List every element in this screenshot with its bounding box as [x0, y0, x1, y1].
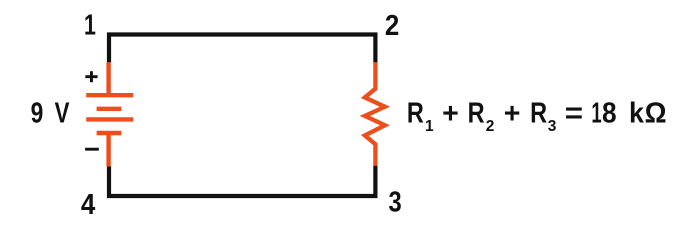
svg-text:2: 2: [486, 118, 495, 135]
resistor R (R1+R2+R3 series equivalent) zigzag: [365, 62, 385, 165]
svg-text:3: 3: [389, 185, 402, 218]
svg-text:R: R: [530, 96, 547, 129]
wire bottom: node 4 to node 3: [109, 166, 375, 196]
svg-text:3: 3: [548, 118, 557, 135]
svg-text:1: 1: [425, 118, 434, 135]
battery value label 9 V: [31, 98, 70, 129]
wire top: node 1 to node 2: [109, 35, 375, 63]
svg-text:+: +: [504, 98, 521, 130]
battery B1 plate 3 (long): [86, 117, 133, 121]
battery B1 plate 2 (short): [97, 107, 122, 111]
svg-text:8: 8: [602, 96, 617, 128]
battery B1 top lead: [106, 62, 110, 95]
svg-text:2: 2: [385, 9, 399, 41]
resistor value label: R1 + R2 + R3 = 18 kOhm: [407, 96, 667, 135]
battery B1 bottom lead: [106, 133, 110, 166]
svg-text:=: =: [565, 98, 583, 129]
svg-text:9: 9: [31, 98, 44, 129]
svg-text:4: 4: [81, 188, 95, 220]
battery minus sign: [85, 148, 99, 151]
svg-text:R: R: [407, 96, 424, 129]
svg-text:V: V: [55, 98, 70, 129]
svg-text:k: k: [629, 97, 644, 129]
svg-text:+: +: [442, 98, 459, 130]
svg-text:1: 1: [591, 97, 601, 129]
battery B1 plate 1 (long, +): [86, 93, 133, 97]
svg-text:1: 1: [84, 10, 96, 42]
svg-text:Ω: Ω: [645, 97, 667, 129]
svg-text:R: R: [468, 96, 485, 129]
battery B1 plate 4 (short, -): [97, 131, 122, 135]
battery plus sign: [85, 71, 97, 82]
